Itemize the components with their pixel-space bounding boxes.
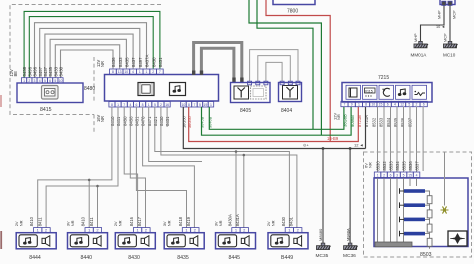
svg-text:BE: BE [13, 71, 18, 77]
wire 8419 to 8435 [143, 107, 195, 228]
svg-text:8503: 8503 [420, 252, 432, 258]
ground MM01A [414, 44, 427, 48]
junction dots on ground bus [322, 147, 325, 150]
green bus wire lower [202, 107, 352, 136]
svg-text:3: 3 [34, 79, 36, 83]
svg-text:8431: 8431 [288, 216, 293, 226]
svg-text:7: 7 [344, 103, 346, 107]
wire 8533 to amplifier [390, 107, 392, 173]
radio head unit 8480 [105, 75, 219, 102]
wire 7800 red [266, 0, 330, 142]
svg-text:8410: 8410 [81, 216, 86, 226]
antenna 8404 [279, 83, 302, 102]
loudspeaker B449 [266, 216, 308, 261]
svg-text:1: 1 [377, 173, 379, 177]
svg-text:MM01A: MM01A [411, 53, 428, 58]
svg-text:8: 8 [365, 103, 367, 107]
svg-text:8430: 8430 [128, 255, 140, 261]
svg-text:8430A: 8430A [227, 214, 232, 226]
8503 output stage 1 [400, 188, 433, 206]
svg-text:1: 1 [145, 70, 147, 74]
svg-text:4: 4 [132, 70, 134, 74]
dashed zone around 8503 [364, 152, 472, 257]
svg-text:NR: NR [70, 220, 75, 226]
wire 8410 to front speakers [38, 107, 112, 228]
svg-text:8410: 8410 [110, 116, 115, 126]
wire 8430 to rear speakers [155, 107, 290, 228]
branch drop 8440 pin1 [88, 180, 90, 228]
svg-text:7: 7 [193, 103, 195, 107]
svg-text:36G50: 36G50 [187, 115, 192, 128]
amplifier 8503 [374, 178, 468, 247]
wire 8415 pin2 to 8480 [29, 17, 153, 78]
svg-text:8721A: 8721A [364, 115, 369, 127]
8503 output stage 2 [400, 202, 433, 220]
svg-text:7: 7 [159, 70, 161, 74]
ground MC36 [344, 246, 357, 250]
svg-text:MHP: MHP [437, 10, 442, 19]
svg-text:2: 2 [152, 70, 154, 74]
svg-text:8430: 8430 [151, 57, 156, 67]
svg-text:NR: NR [100, 116, 105, 122]
wire CAN green inner [257, 0, 313, 129]
8503 internal wires [378, 178, 417, 242]
short stub wire 8431 [166, 107, 168, 127]
svg-text:8415: 8415 [40, 107, 52, 113]
svg-text:8721B: 8721B [357, 115, 362, 127]
8405 pin stubs [248, 81, 268, 85]
svg-text:7215: 7215 [378, 75, 389, 81]
svg-text:8435: 8435 [177, 255, 189, 261]
wire 8532 to amplifier [383, 107, 385, 173]
dark red wire fragment bottom left [0, 231, 2, 249]
svg-text:NR: NR [118, 220, 123, 226]
wire 8536 to amplifier [409, 107, 411, 173]
svg-text:8535: 8535 [402, 161, 407, 171]
wire 8537 stub [422, 107, 424, 172]
coax terminals [192, 71, 244, 83]
svg-text:36G8B: 36G8B [343, 114, 348, 127]
svg-text:4: 4 [39, 79, 41, 83]
connector label 12V NR [96, 59, 105, 67]
wire 8415 pin3 to 8480 [35, 23, 147, 78]
svg-text:10: 10 [182, 103, 186, 107]
svg-text:6: 6 [49, 79, 51, 83]
svg-text:8444: 8444 [29, 255, 41, 261]
8480 bottom connector group2 [181, 102, 214, 108]
svg-text:8437: 8437 [131, 57, 136, 67]
wire labels above 8415 [22, 66, 63, 76]
wire 8431 to rear speakers [161, 107, 297, 228]
connector unit top right (cut off) [440, 0, 455, 5]
svg-text:8410: 8410 [29, 216, 34, 226]
svg-text:10: 10 [59, 79, 63, 83]
8480 top connector 12V NR [110, 69, 164, 74]
svg-text:8: 8 [111, 103, 113, 107]
svg-text:8431: 8431 [165, 116, 170, 126]
svg-text:4: 4 [129, 103, 131, 107]
svg-text:4: 4 [394, 103, 396, 107]
7215 pin row [341, 101, 427, 106]
8480 bottom connector 16V NR group1 [109, 102, 170, 108]
wire labels above 8480 top [111, 54, 163, 67]
wire 8534 to amplifier [396, 107, 398, 173]
svg-text:MC10: MC10 [443, 53, 456, 58]
svg-text:16: 16 [165, 103, 169, 107]
wire 8535 to amplifier [403, 107, 405, 173]
svg-text:7: 7 [123, 103, 125, 107]
wire 8531 to amplifier [377, 107, 379, 173]
wire 8415 pin5 to 8480 [45, 34, 133, 77]
svg-text:5: 5 [408, 103, 410, 107]
connector label 12V BE [9, 69, 18, 77]
svg-text:10: 10 [124, 70, 128, 74]
wire 8415 pin4 to 8480 [40, 28, 140, 77]
svg-text:1: 1 [139, 70, 141, 74]
svg-text:MCP: MCP [451, 10, 456, 19]
wire MCP to MC10 [449, 6, 451, 43]
svg-text:3: 3 [396, 173, 398, 177]
svg-text:6: 6 [423, 103, 425, 107]
svg-text:M8480: M8480 [318, 228, 323, 241]
svg-text:MC35: MC35 [316, 253, 329, 259]
svg-text:MCP: MCP [443, 33, 448, 42]
svg-text:⊙+: ⊙+ [303, 143, 309, 148]
svg-text:8405: 8405 [240, 108, 251, 114]
svg-text:8537: 8537 [415, 161, 420, 171]
wire 8417 to 8430 [130, 107, 145, 228]
svg-text:8530: 8530 [376, 161, 381, 171]
antenna amplifier 8405 [231, 83, 271, 103]
svg-text:8: 8 [112, 70, 114, 74]
svg-text:NR: NR [270, 220, 275, 226]
svg-text:8445: 8445 [229, 255, 241, 261]
wire 8415 pin6 to 8480 [50, 39, 126, 77]
antenna coax cable inner [201, 48, 234, 81]
svg-text:8430: 8430 [159, 116, 164, 126]
star feed wire inside amplifier [444, 152, 446, 206]
8503 output stage 3 [400, 217, 433, 235]
svg-text:8418: 8418 [178, 216, 183, 226]
svg-text:2: 2 [28, 79, 30, 83]
8404 pin stubs [280, 81, 300, 85]
svg-text:13: 13 [118, 70, 122, 74]
antenna link wire 1 [250, 50, 298, 82]
wire 8537 to amplifier [416, 107, 418, 173]
svg-text:2: 2 [383, 173, 385, 177]
star point symbol [441, 207, 449, 214]
connector label 12V NR [332, 113, 341, 120]
wire labels below 8480 group1 [110, 116, 170, 126]
svg-text:5: 5 [154, 103, 156, 107]
svg-text:8411: 8411 [38, 217, 43, 227]
8503 pin row [374, 172, 420, 178]
svg-text:8497: 8497 [138, 57, 143, 67]
svg-text:8416: 8416 [129, 216, 134, 226]
svg-text:15: 15 [408, 173, 412, 177]
multifunction display 8415 [17, 83, 83, 103]
svg-text:8431A: 8431A [235, 214, 240, 226]
svg-text:8532: 8532 [371, 117, 376, 127]
svg-text:8470: 8470 [141, 116, 146, 126]
svg-text:8533: 8533 [379, 117, 384, 127]
green bus wire upper [209, 107, 344, 130]
svg-text:8450: 8450 [122, 116, 127, 126]
8415 pin row [22, 78, 64, 83]
svg-text:8436: 8436 [111, 57, 116, 67]
control unit 7800 (cut off) [273, 0, 315, 5]
svg-text:8421: 8421 [153, 116, 158, 126]
svg-text:M848A: M848A [345, 228, 350, 241]
antenna link wire 2 [258, 56, 291, 82]
svg-text:8433: 8433 [118, 57, 123, 67]
wire 8416 to 8430 [124, 107, 137, 228]
svg-text:16-B9: 16-B9 [327, 136, 339, 141]
svg-text:2: 2 [160, 103, 162, 107]
svg-text:9: 9 [351, 103, 353, 107]
svg-text:10: 10 [371, 103, 375, 107]
wire 8415 pin8 to 8480 [61, 50, 114, 78]
svg-text:8419: 8419 [186, 216, 191, 226]
svg-text:B449: B449 [281, 255, 293, 261]
svg-text:4: 4 [416, 173, 418, 177]
red wire fragment left edge [0, 95, 2, 107]
svg-text:8534: 8534 [395, 161, 400, 171]
wire 8415 pin1 to 8480 [24, 11, 160, 77]
svg-text:7800: 7800 [287, 9, 298, 15]
svg-text:12: 12 [400, 103, 404, 107]
dashed zone boundary (facia area) [10, 5, 161, 133]
branch drops 8445 [235, 152, 237, 228]
loudspeaker 8430 [113, 216, 155, 261]
ground wire to MC35 [322, 149, 324, 246]
svg-text:8435: 8435 [125, 57, 130, 67]
svg-text:8: 8 [142, 103, 144, 107]
antenna link wire 3 [266, 62, 282, 81]
svg-text:0115: 0115 [365, 89, 373, 93]
svg-text:8431: 8431 [158, 57, 163, 67]
svg-text:5: 5 [199, 103, 201, 107]
8503 wire labels [376, 161, 420, 171]
connector label 16V NR [96, 114, 105, 122]
svg-text:2: 2 [416, 103, 418, 107]
svg-text:8430: 8430 [59, 66, 64, 76]
svg-text:8480: 8480 [84, 86, 95, 92]
ground MC10 [444, 44, 457, 48]
7215 ground wire rise [365, 107, 367, 149]
svg-text:1: 1 [23, 79, 25, 83]
loudspeaker 8445 [213, 214, 255, 261]
svg-text:8456: 8456 [128, 116, 133, 126]
svg-text:8411: 8411 [89, 217, 94, 227]
wire labels below 8480 group2 [181, 115, 212, 128]
svg-text:5: 5 [54, 79, 56, 83]
svg-text:6: 6 [390, 173, 392, 177]
labels MHP MCP lower [413, 33, 448, 42]
svg-text:8430: 8430 [281, 216, 286, 226]
svg-text:MC36: MC36 [343, 253, 356, 259]
svg-text:1: 1 [148, 103, 150, 107]
7215 wire labels [343, 114, 413, 127]
svg-text:NR: NR [336, 114, 341, 120]
wire 8418 to 8435 [136, 107, 186, 228]
svg-text:8437A: 8437A [145, 54, 150, 67]
branch drop 8440 pin2 [97, 186, 99, 228]
svg-text:8471: 8471 [147, 116, 152, 126]
antenna coax cable outer [194, 43, 242, 82]
svg-text:NR: NR [218, 220, 223, 226]
wire CAN green outer [249, 0, 321, 135]
svg-text:NR: NR [367, 162, 372, 168]
svg-text:5: 5 [44, 79, 46, 83]
loudspeaker 8444 [14, 216, 56, 261]
connector label 6V NR [364, 162, 373, 168]
loudspeaker 8440 [65, 216, 107, 261]
svg-text:10 ◄: 10 ◄ [436, 25, 445, 29]
svg-text:1: 1 [210, 103, 212, 107]
svg-text:8536: 8536 [408, 161, 413, 171]
wire MHP to MM01A [421, 6, 445, 43]
svg-text:12 ◄: 12 ◄ [354, 143, 364, 148]
telematic unit 7215 [342, 83, 432, 103]
svg-text:NR: NR [167, 220, 172, 226]
red bus wire [189, 107, 359, 142]
8503 bus bar [375, 242, 412, 247]
svg-text:NR: NR [100, 61, 105, 67]
loudspeaker 8435 [162, 216, 204, 261]
svg-text:8536: 8536 [400, 117, 405, 127]
svg-text:8: 8 [188, 103, 190, 107]
dark ground bus wire [183, 107, 365, 149]
svg-text:8404: 8404 [281, 108, 292, 114]
svg-text:1: 1 [117, 103, 119, 107]
svg-text:NR: NR [19, 220, 24, 226]
svg-text:8411: 8411 [116, 116, 121, 126]
svg-text:1: 1 [358, 103, 360, 107]
svg-text:5: 5 [403, 173, 405, 177]
svg-text:9096B: 9096B [350, 115, 355, 127]
svg-text:19: 19 [204, 103, 208, 107]
svg-text:6: 6 [136, 103, 138, 107]
8503 output stage 4 [400, 231, 433, 249]
labels MHP MCP top [437, 10, 457, 19]
wire 8411 to front speakers [46, 107, 118, 228]
svg-text:8417: 8417 [137, 216, 142, 226]
svg-text:6: 6 [387, 103, 389, 107]
svg-text:8532: 8532 [382, 161, 387, 171]
svg-text:8533: 8533 [389, 161, 394, 171]
ground MC35 [317, 246, 330, 250]
svg-text:MHP: MHP [413, 33, 418, 42]
stray wire 8471 [149, 107, 202, 162]
svg-text:8451: 8451 [135, 116, 140, 126]
navigation icon [448, 231, 467, 246]
svg-text:15: 15 [379, 103, 383, 107]
wire 8415 pin7 to 8480 [55, 45, 119, 78]
ground wire to MC36 [349, 149, 351, 246]
svg-text:8440: 8440 [81, 255, 93, 261]
